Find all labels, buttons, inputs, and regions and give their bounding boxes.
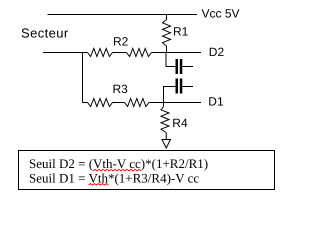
svg-text:Seuil D2 = (Vth-V cc)*(1+R2/R1: Seuil D2 = (Vth-V cc)*(1+R2/R1) <box>29 156 208 171</box>
svg-text:R4: R4 <box>172 116 188 130</box>
svg-text:R3: R3 <box>113 82 129 96</box>
svg-text:R2: R2 <box>113 35 129 49</box>
svg-text:R1: R1 <box>173 24 189 38</box>
svg-text:Seuil D1 = Vth*(1+R3/R4)-V cc: Seuil D1 = Vth*(1+R3/R4)-V cc <box>29 171 199 186</box>
svg-text:Vcc 5V: Vcc 5V <box>202 6 240 20</box>
svg-text:Secteur: Secteur <box>21 26 69 41</box>
svg-text:D2: D2 <box>209 45 225 59</box>
svg-text:D1: D1 <box>208 94 224 108</box>
